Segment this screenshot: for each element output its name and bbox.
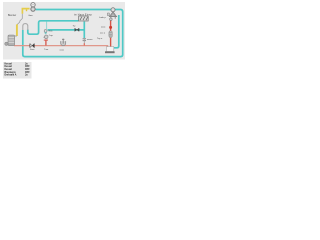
svg-text:Kessel: Kessel: [5, 63, 13, 65]
svg-text:Tvor: Tvor: [44, 48, 49, 51]
svg-text:xxx o: xxx o: [100, 32, 106, 34]
wire: teal drop from heat exchanger: [83, 22, 85, 39]
svg-text:Kessel: Kessel: [5, 66, 13, 68]
gas inlet stub: [15, 35, 17, 37]
wire: teal branch down to mixing group: [46, 22, 48, 30]
svg-text:xxxxx: xxxxx: [87, 39, 93, 41]
wire: yellow gas line top: [22, 9, 29, 14]
wire: yellow gas line to boiler: [16, 24, 18, 36]
gas valve tick: [26, 10, 27, 12]
storage tank box: [106, 47, 113, 52]
svg-text:Tw: Tw: [73, 26, 76, 28]
svg-text:Svor: Svor: [30, 48, 35, 51]
svg-text:Gwz: Gwz: [28, 15, 32, 17]
pipe bridge arch: [23, 24, 28, 30]
svg-text:OFF: OFF: [25, 69, 30, 71]
safety group pump top right: [111, 8, 115, 12]
boiler burner stub: [5, 42, 8, 45]
svg-text:Lade p: Lade p: [99, 17, 106, 19]
svg-text:OFF: OFF: [25, 72, 30, 74]
svg-text:Tsp o: Tsp o: [97, 38, 103, 40]
red tee crossbar: [44, 39, 48, 41]
svg-text:Brenner: Brenner: [8, 14, 16, 17]
check valve on exchanger drop: [83, 39, 86, 41]
svg-text:Kessel: Kessel: [5, 69, 13, 71]
red ball valve on vertical: [109, 26, 112, 29]
panel background: [3, 2, 125, 60]
storage tank base bar: [105, 51, 115, 53]
wire: red boiler supply main: [14, 46, 108, 51]
svg-text:Brennerst.: Brennerst.: [5, 71, 17, 74]
mixing valve M1: [44, 30, 47, 33]
wire: teal top supply line: [23, 10, 123, 57]
wire: red stub below check valve: [83, 43, 85, 45]
boiler: [8, 35, 15, 46]
shutoff valve on red main: [30, 44, 34, 48]
gas meter (double circle): [31, 3, 35, 7]
wire: thin gray gas drop zigzag: [17, 14, 22, 25]
wire: teal horizontal to exchanger drop: [48, 29, 85, 31]
svg-text:Nvw: Nvw: [49, 31, 53, 33]
svg-text:OFF: OFF: [25, 66, 30, 68]
valve V1 (bowtie on teal line): [75, 28, 79, 31]
flexible connector capsule: [109, 31, 112, 38]
pump P1: [44, 35, 48, 39]
wire: red stem from pump to main: [45, 40, 47, 46]
legend box: [3, 62, 32, 79]
strainer on red main: [61, 41, 66, 45]
wire: red vertical to storage tank: [110, 20, 112, 46]
svg-text:Drehzahl A: Drehzahl A: [5, 74, 17, 77]
wire: teal inner right return vertical: [114, 15, 119, 48]
wire: teal inner loop from bridge to heat exchanger line: [28, 21, 79, 34]
heat exchanger (hatched box): [79, 16, 89, 21]
